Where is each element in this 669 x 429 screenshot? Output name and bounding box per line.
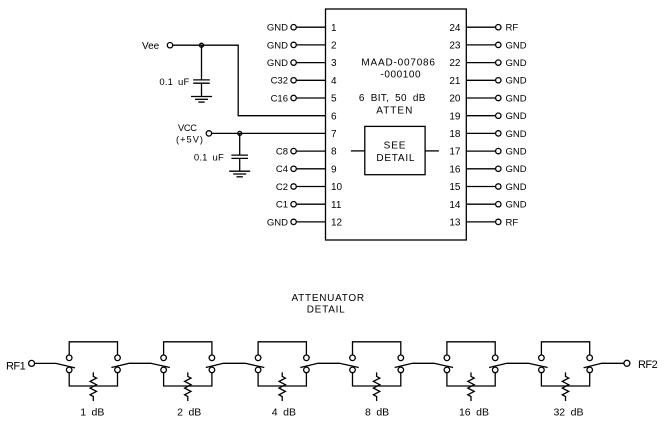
svg-text:11: 11 <box>331 200 342 211</box>
svg-text:6: 6 <box>331 111 337 122</box>
resistor R6 (32 dB pad) <box>562 372 568 401</box>
svg-text:C1: C1 <box>276 200 288 211</box>
attenuator section 32 dB: bypass loop wiring <box>541 342 589 386</box>
svg-text:7: 7 <box>331 129 337 140</box>
pin 13 (RF): wire, terminal, label <box>449 217 518 228</box>
svg-text:C16: C16 <box>271 93 288 104</box>
svg-text:RF: RF <box>506 23 519 34</box>
svg-text:9: 9 <box>331 164 337 175</box>
svg-text:MAAD-007086: MAAD-007086 <box>361 58 435 69</box>
svg-text:ATTEN: ATTEN <box>376 105 413 116</box>
svg-text:17: 17 <box>449 147 461 158</box>
pin 6 number <box>331 111 337 122</box>
wire Vee terminal to pin 6 <box>173 45 326 116</box>
attenuator section 4 dB: bypass loop wiring <box>258 342 306 386</box>
svg-text:GND: GND <box>267 217 288 228</box>
svg-text:23: 23 <box>449 41 461 52</box>
capacitor C1 0.1 uF (Vee bypass) <box>159 45 209 96</box>
svg-text:GND: GND <box>506 200 527 211</box>
wire stub out of SEE DETAIL (right, pin 17 path) <box>425 150 439 152</box>
svg-text:DETAIL: DETAIL <box>376 153 415 164</box>
pin 1 (GND): wire, terminal, label <box>267 23 337 34</box>
svg-text:C32: C32 <box>271 76 288 87</box>
svg-text:0.1 uF: 0.1 uF <box>194 153 224 164</box>
svg-text:ATTENUATOR: ATTENUATOR <box>292 293 365 304</box>
svg-text:19: 19 <box>449 111 461 122</box>
Vee terminal <box>142 41 173 52</box>
pin 15 (GND): wire, terminal, label <box>449 182 526 193</box>
svg-text:1: 1 <box>331 23 337 34</box>
attenuator section 1 dB: bypass loop wiring <box>69 342 117 386</box>
value label 32 dB <box>553 407 583 419</box>
svg-text:12: 12 <box>331 218 343 229</box>
junction Vee / C1 <box>200 43 204 47</box>
pin 11 (C1): wire, terminal, label <box>276 200 342 211</box>
wire / switch arm section 16 dB to section 32 dB <box>489 363 547 367</box>
svg-text:GND: GND <box>506 58 527 69</box>
wire VCC terminal to pin 7 <box>212 132 326 134</box>
svg-text:C2: C2 <box>276 182 288 193</box>
svg-text:1 dB: 1 dB <box>80 407 104 419</box>
value label 2 dB <box>177 407 201 419</box>
pin 3 (GND): wire, terminal, label <box>267 58 337 69</box>
svg-text:18: 18 <box>449 129 461 140</box>
svg-text:GND: GND <box>506 40 527 51</box>
wire / switch arm section 32 dB to RF2 <box>584 363 624 367</box>
switch contacts (section 1 dB) <box>66 355 120 373</box>
pin 24 (RF): wire, terminal, label <box>449 23 518 34</box>
svg-text:Vee: Vee <box>142 41 160 52</box>
wire / switch arm RF1 to section 1 dB <box>35 363 75 368</box>
pin 18 (GND): wire, terminal, label <box>449 129 526 140</box>
IC U1 part number label MAAD-007086 -000100 <box>361 58 435 81</box>
svg-text:8 dB: 8 dB <box>365 407 389 419</box>
svg-text:GND: GND <box>506 129 527 140</box>
resistor R5 (16 dB pad) <box>468 372 474 401</box>
svg-text:GND: GND <box>506 182 527 193</box>
pin 22 (GND): wire, terminal, label <box>449 58 526 69</box>
pin 20 (GND): wire, terminal, label <box>449 93 526 104</box>
SEE DETAIL sub-block inside U1 <box>365 126 425 174</box>
VCC (+5V) terminal <box>176 123 212 144</box>
svg-text:13: 13 <box>449 218 461 229</box>
svg-text:(+5V): (+5V) <box>176 134 204 144</box>
RF1 terminal <box>6 360 35 372</box>
pin 10 (C2): wire, terminal, label <box>276 182 343 193</box>
svg-text:C4: C4 <box>276 164 288 175</box>
attenuator section 2 dB: bypass loop wiring <box>164 342 212 386</box>
wire / switch arm section 1 dB to section 2 dB <box>111 363 169 367</box>
switch contacts (section 16 dB) <box>444 355 498 373</box>
resistor R3 (4 dB pad) <box>279 372 285 401</box>
svg-text:2: 2 <box>331 41 337 52</box>
svg-text:4: 4 <box>331 76 337 87</box>
wire / switch arm section 4 dB to section 8 dB <box>300 363 358 367</box>
svg-text:RF2: RF2 <box>638 359 658 371</box>
pin 8 (C8): wire, terminal, label <box>276 147 337 158</box>
pin 19 (GND): wire, terminal, label <box>449 111 526 122</box>
svg-text:14: 14 <box>449 200 461 211</box>
svg-text:3: 3 <box>331 58 337 69</box>
svg-text:DETAIL: DETAIL <box>307 304 346 315</box>
svg-text:4 dB: 4 dB <box>272 407 296 419</box>
IC U1 body (MAAD-007086-000100) <box>326 9 467 240</box>
pin 4 (C32): wire, terminal, label <box>271 76 337 87</box>
svg-text:20: 20 <box>449 94 461 105</box>
capacitor C2 0.1 uF (VCC bypass) <box>194 133 248 171</box>
svg-text:GND: GND <box>506 93 527 104</box>
pin 23 (GND): wire, terminal, label <box>449 40 526 51</box>
value label 4 dB <box>272 407 296 419</box>
svg-text:6 BIT, 50 dB: 6 BIT, 50 dB <box>359 93 426 104</box>
value label 1 dB <box>80 407 104 419</box>
attenuator section 16 dB: bypass loop wiring <box>447 342 495 386</box>
svg-text:10: 10 <box>331 182 343 193</box>
attenuator section 8 dB: bypass loop wiring <box>353 342 401 386</box>
ground symbol (Vee bypass) <box>191 97 212 103</box>
svg-text:RF1: RF1 <box>6 360 26 372</box>
pin 5 (C16): wire, terminal, label <box>271 93 337 104</box>
svg-text:24: 24 <box>449 23 461 34</box>
svg-text:22: 22 <box>449 58 461 69</box>
svg-text:GND: GND <box>506 111 527 122</box>
value label 8 dB <box>365 407 389 419</box>
svg-text:0.1 uF: 0.1 uF <box>159 77 189 88</box>
svg-text:VCC: VCC <box>178 123 197 133</box>
svg-text:RF: RF <box>506 217 519 228</box>
junction VCC / C2 <box>238 131 242 135</box>
switch contacts (section 4 dB) <box>255 355 309 373</box>
switch contacts (section 32 dB) <box>539 355 593 373</box>
wire / switch arm section 8 dB to section 16 dB <box>395 363 453 367</box>
svg-text:8: 8 <box>331 147 337 158</box>
svg-text:16 dB: 16 dB <box>459 407 489 419</box>
pin 7 number <box>331 129 337 140</box>
title ATTENUATOR DETAIL <box>292 293 365 316</box>
wire / switch arm section 2 dB to section 4 dB <box>206 363 264 367</box>
svg-text:C8: C8 <box>276 147 288 158</box>
pin 14 (GND): wire, terminal, label <box>449 200 526 211</box>
svg-text:GND: GND <box>267 40 288 51</box>
pin 2 (GND): wire, terminal, label <box>267 40 337 51</box>
svg-text:GND: GND <box>506 164 527 175</box>
svg-text:2 dB: 2 dB <box>177 407 201 419</box>
pin 9 (C4): wire, terminal, label <box>276 164 337 175</box>
svg-text:16: 16 <box>449 164 461 175</box>
pin 16 (GND): wire, terminal, label <box>449 164 526 175</box>
RF2 terminal <box>624 359 658 371</box>
svg-text:GND: GND <box>267 23 288 34</box>
resistor R1 (1 dB pad) <box>90 372 96 401</box>
resistor R4 (8 dB pad) <box>373 372 379 401</box>
switch contacts (section 2 dB) <box>161 355 215 373</box>
svg-text:GND: GND <box>267 58 288 69</box>
IC U1 function label 6 BIT, 50 dB ATTEN <box>359 93 426 116</box>
svg-text:5: 5 <box>331 94 337 105</box>
ground symbol (VCC bypass) <box>229 171 250 177</box>
svg-text:15: 15 <box>449 182 461 193</box>
resistor R2 (2 dB pad) <box>185 372 191 401</box>
pin 17 (GND): wire, terminal, label <box>449 147 526 158</box>
pin 21 (GND): wire, terminal, label <box>449 76 526 87</box>
value label 16 dB <box>459 407 489 419</box>
pin 12 (GND): wire, terminal, label <box>267 217 343 228</box>
switch contacts (section 8 dB) <box>350 355 404 373</box>
svg-text:-000100: -000100 <box>381 70 422 81</box>
svg-text:GND: GND <box>506 76 527 87</box>
svg-text:SEE: SEE <box>384 141 407 152</box>
svg-text:32 dB: 32 dB <box>553 407 583 419</box>
svg-text:GND: GND <box>506 147 527 158</box>
svg-text:21: 21 <box>449 76 461 87</box>
wire stub into SEE DETAIL (left, pin 8 path) <box>351 150 365 152</box>
